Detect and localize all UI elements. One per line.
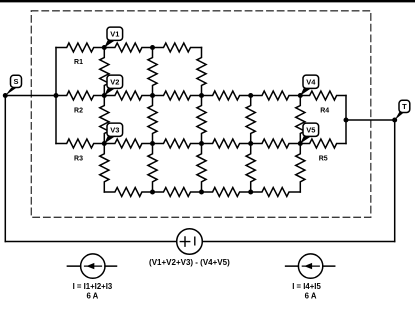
resistor row B 4 [202,91,251,100]
node left bus / row B [54,93,59,98]
node V3 junction [102,141,107,146]
svg-text:V2: V2 [110,77,119,86]
label callout V2 wedge [104,88,116,96]
voltage source plus sign [180,237,189,246]
label callout T box [399,100,410,112]
voltage source minus bar [194,237,196,245]
resistor vertical B-C col1 [100,96,109,144]
resistor row C 5 [251,139,301,148]
wire: T lead out of network [346,119,395,121]
current source I123 arrow line [85,265,102,267]
resistor row D 2 [153,188,202,197]
resistor row C 4 [202,139,251,148]
wire: bottom loop right of source [202,241,394,243]
svg-text:I = I4+I5: I = I4+I5 [292,282,321,291]
voltage source circle [177,229,203,255]
node C3 [199,141,204,146]
node C2 [150,141,155,146]
svg-text:I = I1+I2+I3: I = I1+I2+I3 [73,282,113,291]
node right bus tap [344,118,349,123]
svg-text:V4: V4 [306,77,316,86]
svg-text:V5: V5 [306,125,315,134]
label callout S wedge [5,88,16,96]
resistor row A right [153,43,202,52]
current source I45 circle [298,254,322,278]
svg-text:S: S [13,77,18,86]
svg-text:6 A: 6 A [86,292,98,301]
label callout T wedge [395,112,405,120]
wire: right bus [345,96,347,144]
label callout V4 box [303,75,319,88]
node B3 [199,93,204,98]
svg-text:(V1+V2+V3) - (V4+V5): (V1+V2+V3) - (V4+V5) [149,258,230,267]
resistor vertical A-B col1 [100,48,109,96]
node C4 [248,141,253,146]
label callout V3 box [107,123,123,136]
label callout S box [11,75,22,87]
resistor vertical C-D col4 [246,144,255,193]
label callout V2 box [107,75,123,88]
resistor vertical A-B col2 [148,48,157,96]
label callout V1 box [107,27,123,40]
resistor row C 3 [153,139,202,148]
current source I123 stubs [67,265,116,267]
node D3 [248,190,253,195]
node row A col2 [150,45,155,50]
svg-text:T: T [402,102,407,111]
resistor vertical B-C col5 [296,96,305,144]
top border line [0,0,415,2]
resistor R1 [56,43,104,52]
node V2 junction [102,93,107,98]
node V5 junction [298,141,303,146]
svg-text:V3: V3 [110,125,119,134]
wire: left outer drop to bottom loop [4,96,6,242]
node D1 [150,190,155,195]
resistor row B 5 [251,91,301,100]
resistor R2 [56,91,104,100]
resistor row B 2 [104,91,152,100]
node T junction [392,118,397,123]
current source I123 arrowhead [86,263,94,269]
label callout V5 box [303,123,319,136]
node S junction [3,93,8,98]
node B4 [248,93,253,98]
resistor vertical A-B col3 [197,48,206,96]
resistor row D 4 [251,188,301,197]
resistor vertical C-D col2 [148,144,157,193]
label callout V1 wedge [104,40,116,48]
svg-text:6 A: 6 A [305,292,317,301]
resistor R5 [300,139,346,148]
svg-text:R4: R4 [320,108,329,115]
svg-text:R1: R1 [74,59,83,66]
current source I45 arrow line [302,265,319,267]
resistor R3 [56,139,104,148]
resistor R4 [300,91,346,100]
resistor row D 1 [104,188,152,197]
label callout V3 wedge [104,136,116,144]
svg-text:V1: V1 [110,29,119,38]
wire: S lead into network [5,95,56,97]
resistor vertical C-D col1 [100,144,109,193]
resistor row B 3 [153,91,202,100]
resistor vertical B-C col2 [148,96,157,144]
resistor row A mid [104,43,152,52]
resistor vertical C-D col5 [296,144,305,193]
resistor vertical C-D col3 [197,144,206,193]
node V4 junction [298,93,303,98]
wire: right outer drop to bottom loop [394,120,396,242]
dashed boundary box [31,11,371,218]
current source I123 circle [81,254,105,278]
svg-text:R5: R5 [319,155,328,162]
resistor vertical B-C col4 [246,96,255,144]
label callout V4 wedge [300,88,312,96]
node D2 [199,190,204,195]
current source I45 stubs [286,265,335,267]
wire: left bus [55,48,57,144]
resistor row D 3 [202,188,251,197]
svg-text:R2: R2 [74,107,83,114]
node B2 [150,93,155,98]
current source I45 arrowhead [304,263,312,269]
svg-text:R3: R3 [74,155,83,162]
label callout V5 wedge [300,136,312,144]
resistor row C 2 [104,139,152,148]
node V1 junction [102,45,107,50]
resistor vertical B-C col3 [197,96,206,144]
wire: bottom loop left of source [5,241,176,243]
